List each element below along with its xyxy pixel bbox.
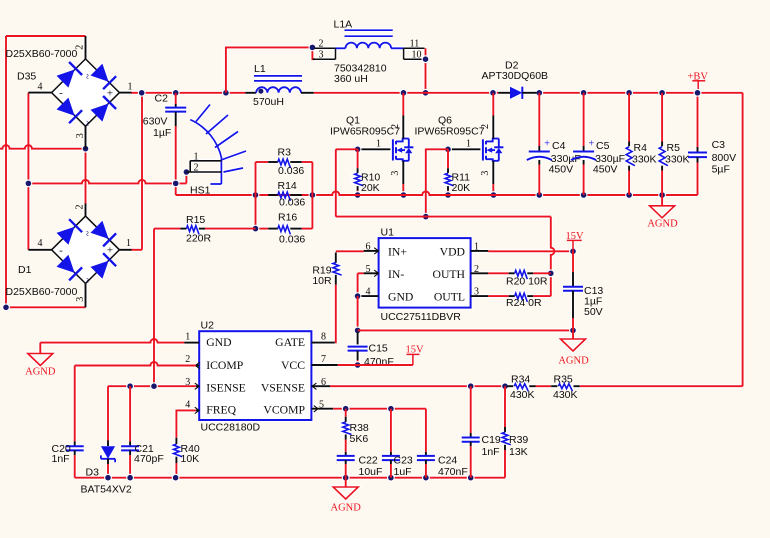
node rail C21: [126, 474, 134, 482]
pin name U2 ISENSE: [206, 382, 246, 395]
node AC line 2 left: [25, 180, 33, 188]
svg-text:+: +: [589, 139, 595, 150]
label R3 ref: [278, 147, 292, 159]
svg-text:3: 3: [390, 171, 401, 176]
svg-text:Q1: Q1: [346, 114, 360, 126]
pin name U1 OUTH: [433, 268, 466, 281]
node VCOMP C23: [387, 405, 395, 413]
label R4 ref: [634, 142, 648, 154]
svg-text:Q6: Q6: [438, 114, 452, 126]
svg-text:R24 0R: R24 0R: [506, 297, 542, 309]
svg-text:2: 2: [74, 45, 85, 50]
svg-text:R4: R4: [634, 142, 648, 154]
svg-text:ICOMP: ICOMP: [206, 359, 244, 372]
svg-text:3: 3: [480, 171, 491, 176]
pin number U2-3: [185, 377, 190, 388]
label C20 value: [52, 453, 70, 465]
capacitor C15: [348, 332, 368, 365]
pin name U1 VDD: [440, 245, 465, 258]
label C5 value: [595, 153, 625, 165]
node rail C5: [580, 191, 588, 199]
wire main line left: [142, 92, 246, 94]
node Q6 drain: [489, 89, 497, 97]
label R5 ref: [667, 142, 681, 154]
node rail C24: [422, 474, 430, 482]
label D1 value: [6, 286, 78, 298]
pin U1-5: [364, 270, 379, 276]
pin stub D35 pin4: [28, 92, 52, 94]
node shunt bottom junction: [252, 225, 260, 233]
capacitor C20: [66, 366, 84, 478]
wire D1 pin1 riser: [141, 93, 143, 250]
node U1 GND net: [354, 327, 362, 335]
ground AGND C13: [558, 339, 589, 367]
label C13 value: [584, 296, 602, 308]
wire FREQ wire: [176, 410, 195, 437]
svg-text:IN-: IN-: [388, 268, 404, 281]
label C15 value: [364, 356, 394, 368]
svg-text:VSENSE: VSENSE: [261, 382, 305, 395]
svg-text:6: 6: [366, 241, 371, 252]
svg-text:10R: 10R: [312, 275, 332, 287]
svg-text:1uF: 1uF: [394, 466, 412, 478]
wire shunt right vertical: [311, 162, 313, 229]
label D2 value: [482, 70, 549, 82]
svg-text:800V: 800V: [712, 152, 737, 164]
svg-text:U2: U2: [201, 320, 215, 332]
pin U2-1: [184, 342, 199, 344]
node Q1 source: [400, 191, 408, 199]
label C4 voltage: [549, 164, 574, 176]
svg-text:+: +: [107, 245, 113, 257]
ground AGND right: [647, 206, 678, 230]
wire D35 pin1 stub red: [131, 92, 142, 94]
svg-text:1: 1: [194, 151, 199, 162]
label R10 value: [361, 182, 380, 194]
label R35 ref: [554, 374, 573, 386]
svg-text:-: -: [59, 87, 63, 99]
label U1 part: [381, 311, 462, 323]
label C2 value: [153, 127, 171, 139]
pin number U2-2: [185, 354, 190, 365]
svg-text:C19: C19: [482, 434, 501, 446]
pin name U1 OUTL: [434, 291, 465, 304]
label R14 value: [279, 196, 305, 208]
svg-text:VCC: VCC: [281, 359, 305, 372]
label C5 ref: [596, 140, 610, 152]
label C3 ref: [712, 139, 726, 151]
pin number Q6-3: [480, 171, 491, 176]
svg-text:OUTL: OUTL: [434, 291, 465, 304]
pin number L1A-10: [412, 49, 422, 60]
svg-text:1: 1: [128, 82, 133, 93]
resistor R5: [659, 93, 668, 195]
wire L1A pin23 tie: [312, 47, 315, 59]
label R4 value: [632, 153, 657, 165]
node rail R5: [658, 191, 666, 199]
pin U2-5: [311, 406, 333, 412]
svg-text:10: 10: [412, 49, 422, 60]
label R35 value: [553, 389, 578, 401]
node C3 top: [694, 89, 702, 97]
label R38 ref: [350, 422, 369, 434]
svg-text:430K: 430K: [553, 389, 578, 401]
label C23 value: [394, 466, 412, 478]
node rail C4: [535, 191, 543, 199]
node Q6 gate junction: [444, 145, 452, 153]
capacitor C23: [382, 409, 400, 478]
svg-text:AGND: AGND: [331, 503, 362, 514]
svg-text:R39: R39: [509, 434, 528, 446]
svg-text:220R: 220R: [186, 232, 212, 244]
svg-text:1: 1: [474, 241, 479, 252]
pin U1-3: [471, 295, 489, 297]
svg-text:+: +: [107, 87, 113, 99]
label C5 voltage: [593, 164, 618, 176]
capacitor C5: [571, 93, 596, 195]
node ISENSE sense tap: [150, 382, 158, 390]
svg-text:R16: R16: [278, 212, 297, 224]
svg-text:R34: R34: [511, 374, 530, 386]
wire D35 pin2 riser to D1: [85, 149, 87, 204]
svg-text:D1: D1: [18, 264, 32, 276]
label C15 ref: [369, 343, 388, 355]
svg-text:470pF: 470pF: [134, 453, 164, 465]
label C24 value: [438, 466, 468, 478]
node rail C19: [467, 474, 475, 482]
svg-text:ISENSE: ISENSE: [206, 382, 246, 395]
label R39 ref: [509, 434, 528, 446]
svg-text:OUTH: OUTH: [433, 268, 466, 281]
wire AC input line 1: [0, 145, 86, 149]
label C21 value: [134, 453, 164, 465]
diode D3: [101, 386, 115, 478]
label L1 ref: [254, 63, 266, 75]
label Q1 value: [330, 126, 400, 138]
capacitor C21: [121, 386, 139, 478]
label C5 plus: [589, 139, 595, 150]
pin stub D1 pin1: [119, 249, 131, 251]
node C2 bottom: [172, 180, 180, 188]
pin U1-6: [364, 248, 379, 254]
label D3 ref: [86, 466, 100, 478]
bridge rectifier D1: [52, 216, 120, 284]
capacitor C3: [688, 93, 707, 195]
pin number Q6-1: [466, 138, 471, 149]
pin U2-2: [195, 362, 199, 368]
resistor R20: [488, 270, 551, 279]
op-amp U1 box: [379, 238, 471, 308]
capacitor C4: [527, 93, 552, 195]
wire VCOMP wire: [333, 408, 426, 410]
ground AGND bottom: [331, 487, 362, 514]
capacitor C24: [417, 409, 435, 478]
label C19 value: [482, 446, 500, 458]
node C5 top: [580, 89, 588, 97]
svg-text:3: 3: [75, 297, 86, 302]
pin number U1-3: [474, 287, 479, 298]
label L1A value: [334, 73, 368, 85]
svg-text:4: 4: [366, 287, 371, 298]
pin U2-8: [311, 342, 334, 344]
svg-text:5: 5: [366, 264, 371, 275]
inductor L1A pin box right: [404, 48, 427, 59]
pin U2-3: [195, 383, 199, 389]
wire gate bus: [336, 216, 551, 218]
pin U1-1: [471, 250, 489, 252]
wire ICOMP wire: [75, 362, 196, 366]
node VCOMP R38: [342, 405, 350, 413]
node U1 GND junction: [354, 292, 362, 300]
resistor R24: [488, 293, 551, 302]
resistor R3: [256, 159, 313, 168]
svg-text:L1A: L1A: [334, 19, 353, 31]
pin stub D1 pin2: [85, 204, 87, 217]
node C21 top: [126, 382, 134, 390]
heatsink HS1 symbol: [186, 105, 246, 185]
svg-text:C23: C23: [394, 455, 413, 467]
svg-text:R5: R5: [667, 142, 681, 154]
wire D35 pin4 to D1 pin4 vertical: [27, 93, 29, 250]
svg-text:R15: R15: [186, 214, 205, 226]
svg-text:20K: 20K: [452, 182, 471, 194]
svg-text:UCC27511DBVR: UCC27511DBVR: [381, 311, 462, 323]
node R10 bottom: [354, 191, 362, 199]
svg-text:D25XB60-7000: D25XB60-7000: [6, 286, 78, 298]
label R5 value: [665, 153, 690, 165]
wire driver output vertical: [551, 217, 555, 297]
wire VCC: [338, 364, 413, 366]
svg-text:7: 7: [321, 354, 326, 365]
resistor R10: [355, 149, 364, 195]
svg-text:10uF: 10uF: [359, 466, 383, 478]
svg-text:5µF: 5µF: [712, 164, 730, 176]
svg-text:450V: 450V: [549, 164, 574, 176]
pin U1-4: [358, 295, 379, 297]
wire main line right: [537, 92, 743, 94]
wire AGND bottom stem: [345, 478, 347, 487]
node R5 top: [658, 89, 666, 97]
pin name U1 IN+: [388, 245, 407, 258]
svg-text:0.036: 0.036: [278, 165, 304, 177]
svg-text:VCOMP: VCOMP: [263, 404, 305, 417]
pin stub D35 pin3: [85, 126, 87, 149]
power 15V driver: [566, 231, 585, 252]
svg-text:C24: C24: [438, 455, 457, 467]
svg-text:FREQ: FREQ: [206, 404, 236, 417]
svg-text:2: 2: [75, 205, 86, 210]
wire L1A out: [425, 48, 427, 93]
node Q1 gate junction: [354, 145, 362, 153]
svg-text:IN+: IN+: [388, 245, 407, 258]
pin stub D35 pin1: [119, 92, 131, 94]
pin number HS1-1: [194, 151, 199, 162]
node rail D3: [104, 474, 112, 482]
label L1A part: [334, 62, 387, 74]
svg-text:2: 2: [319, 38, 324, 49]
label R40 ref: [181, 443, 200, 455]
node rail C23: [387, 474, 395, 482]
wire Q1 gate feed: [336, 149, 358, 216]
pin number D35-2: [74, 45, 85, 50]
svg-text:C4: C4: [552, 140, 566, 152]
label R11 ref: [452, 171, 471, 183]
svg-text:D3: D3: [86, 466, 100, 478]
label R10 ref: [361, 171, 380, 183]
label U1 ref: [381, 227, 395, 239]
label Q6 value: [415, 126, 485, 138]
label R19 value: [312, 275, 332, 287]
svg-text:470nF: 470nF: [438, 466, 468, 478]
label HS1 ref: [190, 185, 211, 197]
node +BV junction: [694, 89, 702, 97]
svg-text:UCC28180D: UCC28180D: [201, 422, 261, 434]
wire bridge box top: [6, 35, 86, 37]
label C3 value: [712, 164, 730, 176]
label C4 value: [551, 153, 581, 165]
svg-text:11: 11: [410, 38, 420, 49]
pin number D35-4: [38, 82, 43, 93]
label C4 ref: [552, 140, 566, 152]
svg-text:GND: GND: [388, 291, 413, 304]
svg-text:0.036: 0.036: [279, 196, 305, 208]
node HS1 pin junction: [183, 168, 191, 176]
node D1 pin3 junction: [2, 303, 10, 311]
svg-text:630V: 630V: [143, 115, 168, 127]
svg-text:3: 3: [474, 287, 479, 298]
wire AC line 2: [28, 180, 186, 184]
node VSENSE R39: [501, 382, 509, 390]
node R4 top: [625, 89, 633, 97]
svg-text:~: ~: [81, 231, 92, 237]
node C13 bottom: [569, 327, 577, 335]
node L1A pin10: [422, 55, 430, 63]
svg-text:R35: R35: [554, 374, 573, 386]
label R11 value: [452, 182, 471, 194]
label R34 ref: [511, 374, 530, 386]
wire IN- to GND: [358, 273, 364, 296]
node Q1 drain: [400, 89, 408, 97]
node main C2 tap: [172, 89, 180, 97]
pin name U2 VCC: [281, 359, 305, 372]
svg-text:IPW65R095C7: IPW65R095C7: [415, 126, 485, 138]
svg-text:1µF: 1µF: [153, 127, 171, 139]
label D3 value: [81, 483, 132, 495]
label U2 ref: [201, 320, 215, 332]
svg-text:3: 3: [319, 49, 324, 60]
svg-text:D35: D35: [17, 70, 36, 82]
svg-text:R20 10R: R20 10R: [506, 276, 548, 288]
wire VDD: [488, 250, 573, 252]
svg-text:R3: R3: [278, 147, 292, 159]
node VSENSE C19: [467, 382, 475, 390]
pin name U2 GND: [206, 336, 231, 349]
pin number L1A-11: [410, 38, 420, 49]
pin number U2-6: [321, 377, 326, 388]
svg-text:GATE: GATE: [275, 336, 305, 349]
wire D1 pin3 link: [6, 306, 86, 308]
svg-text:1nF: 1nF: [482, 446, 500, 458]
pin number U1-2: [474, 264, 479, 275]
svg-text:~: ~: [81, 121, 92, 127]
inductor L1: [245, 76, 313, 93]
inductor L1A pin box left: [313, 48, 336, 59]
wire VSENSE wire: [330, 385, 507, 387]
wire U2 GND wire: [40, 339, 184, 354]
node rail R40: [172, 474, 180, 482]
label C3 voltage: [712, 152, 737, 164]
label R16 value: [279, 233, 305, 245]
svg-text:5: 5: [319, 399, 324, 410]
svg-text:C2: C2: [155, 93, 169, 105]
pin number Q1-3: [390, 171, 401, 176]
label D35 ref: [17, 70, 36, 82]
resistor R15: [154, 226, 256, 235]
svg-text:BAT54XV2: BAT54XV2: [81, 483, 132, 495]
label R39 value: [509, 446, 528, 458]
svg-text:450V: 450V: [593, 164, 618, 176]
node VDD 15V junction: [569, 247, 577, 255]
node rail C22: [342, 474, 350, 482]
pin number Q1-1: [376, 138, 381, 149]
label Q1 ref: [346, 114, 360, 126]
transistor Q1: [358, 93, 414, 195]
label C2 voltage: [143, 115, 168, 127]
node main D35 out: [138, 89, 146, 97]
pin stub D35 pin2: [85, 36, 87, 59]
wire GND net to AGND: [358, 329, 573, 331]
pin number D1-1: [126, 238, 131, 249]
wire IN+ wire: [336, 250, 364, 252]
svg-text:C15: C15: [369, 343, 388, 355]
svg-text:VDD: VDD: [440, 245, 465, 258]
pin number U1-6: [366, 241, 371, 252]
svg-text:0.036: 0.036: [279, 233, 305, 245]
label C4 plus: [544, 139, 550, 150]
pin name U2 VCOMP: [263, 404, 305, 417]
svg-text:L1: L1: [254, 63, 266, 75]
svg-text:360 uH: 360 uH: [334, 73, 368, 85]
svg-text:2: 2: [480, 124, 491, 129]
resistor R35: [551, 384, 580, 391]
capacitor C2: [165, 93, 186, 195]
pin number D1-4: [38, 238, 43, 249]
diode D2: [498, 87, 536, 99]
svg-text:1: 1: [466, 138, 471, 149]
capacitor C19: [462, 386, 480, 478]
svg-text:4: 4: [185, 399, 190, 410]
pin U1-2: [471, 272, 489, 274]
node driver output OUTH: [547, 269, 555, 277]
pin number U2-1: [185, 332, 190, 343]
svg-text:3: 3: [75, 133, 86, 138]
pin number U2-7: [321, 354, 326, 365]
svg-text:-: -: [59, 244, 63, 256]
pin number U1-1: [474, 241, 479, 252]
node gate bus Q6 tap: [422, 213, 430, 221]
svg-text:4: 4: [38, 82, 43, 93]
pin number D1-3: [75, 297, 86, 302]
pin name U2 VSENSE: [261, 382, 305, 395]
power 15V vcc: [406, 344, 425, 365]
label C23 ref: [394, 455, 413, 467]
wire bottom rail: [75, 477, 505, 479]
pin number D35-3: [75, 133, 86, 138]
svg-text:8: 8: [321, 332, 326, 343]
wire D1 pin1 stub red: [131, 249, 142, 251]
wire R34 R35 link: [536, 385, 552, 387]
wire L1A feed: [226, 47, 313, 92]
